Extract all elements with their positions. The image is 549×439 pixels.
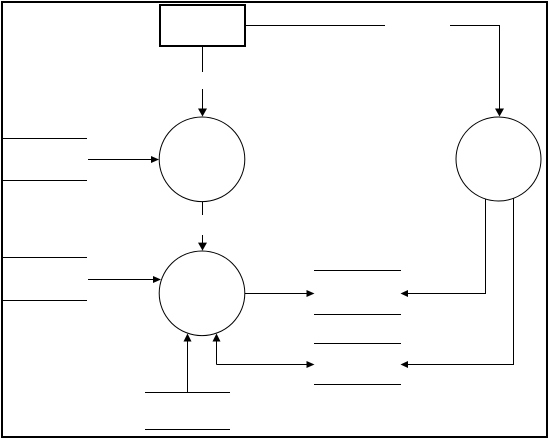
data store D4 bottom line bbox=[314, 384, 401, 386]
arrowhead into D4 right bbox=[401, 361, 409, 368]
data store D2 bottom line bbox=[2, 300, 87, 302]
wire vertical of L-wire P2/D4 bbox=[216, 342, 218, 365]
wire arrow D2 to P2 (shaft) bbox=[88, 279, 154, 281]
arrowhead into P1 top bbox=[198, 109, 207, 117]
wire segment 2 toward P3 bbox=[450, 25, 500, 27]
process P2 (lower middle circle) bbox=[159, 251, 245, 336]
data store D5 top line (bottom middle) bbox=[145, 392, 230, 394]
arrowhead into P2 left bbox=[153, 276, 161, 283]
data store D3 top line (right upper) bbox=[314, 270, 401, 272]
data store D3 bottom line bbox=[314, 314, 401, 316]
wire E1 bottom stub bbox=[202, 46, 204, 72]
data store D1 top line (left upper) bbox=[2, 138, 87, 140]
wire vertical down to P3 bbox=[499, 26, 501, 111]
arrowhead into P2 bottom (from D3 L-wire) bbox=[213, 334, 221, 342]
arrowhead into P3 top bbox=[495, 109, 504, 117]
wire P3 to D3 horizontal bbox=[408, 293, 486, 295]
wire P3 to D4 vertical bbox=[513, 198, 515, 365]
wire arrow D1 to P1 (shaft) bbox=[88, 159, 152, 161]
arrowhead into D3 left bbox=[307, 290, 315, 297]
wire D5 to P2 (shaft) bbox=[187, 342, 189, 393]
arrowhead into P2 bottom (from store D5) bbox=[184, 334, 192, 342]
process P1 (top middle circle) bbox=[159, 117, 245, 202]
wire arrow E1 to process P1 (shaft) bbox=[202, 89, 204, 110]
wire horizontal of L-wire toward D4 bbox=[217, 364, 308, 366]
data store D1 bottom line bbox=[2, 180, 87, 182]
arrowhead into D4 left bbox=[307, 361, 315, 368]
wire arrow P2 to store D3 (shaft) bbox=[245, 293, 307, 295]
data store D5 bottom line bbox=[145, 429, 230, 431]
arrowhead into D3 right bbox=[401, 290, 409, 297]
process P3 (right circle) bbox=[456, 117, 541, 201]
wire P1 bottom stub bbox=[202, 202, 204, 216]
data store D4 top line (right lower) bbox=[314, 343, 401, 345]
wire E1 right to node, segment 1 bbox=[245, 25, 385, 27]
wire P3 to D4 horizontal bbox=[408, 364, 514, 366]
wire arrow P1 to P2 (shaft) bbox=[202, 235, 204, 243]
arrowhead into P1 left bbox=[151, 156, 159, 163]
arrowhead into P2 top bbox=[198, 243, 207, 251]
wire P3 to D3 vertical bbox=[485, 199, 487, 294]
data store D2 top line (left lower) bbox=[2, 257, 87, 259]
external entity E1 (rectangle top) bbox=[160, 5, 245, 46]
